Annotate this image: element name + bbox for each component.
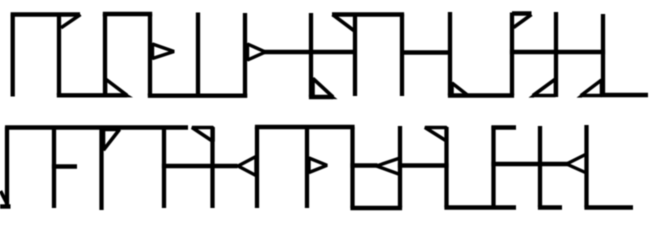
wire H2 bottom horizontal left [57,93,127,97]
wire H11 mid horizontal [162,164,238,168]
flag diagonal at V8 top [333,15,355,32]
arrowhead A5 open left at V22 [377,158,401,175]
wire V22 [398,126,402,208]
left corner triangle at V12 bottom [533,79,556,96]
arrowhead A6 open left at V26 [567,154,587,173]
wire V4 [148,14,152,96]
wire V20 [305,127,309,208]
flag diagonal at V2 top [61,15,81,28]
wire V25 [538,126,542,207]
wire H9 bottom right horizontal [601,93,648,97]
wire V16 [99,127,103,210]
wire H15 mid horizontal [398,163,449,167]
wire V9 [400,14,404,96]
tip of H2 [126,93,133,97]
arrowhead A3 open left at V19 [238,157,256,176]
wire V3 [103,14,107,95]
wire H6 bridge [402,50,450,54]
corner triangle at V10 bottom [452,83,468,96]
wire V14 row2 left vertical [5,127,9,206]
bottom bar at V14 [0,204,11,208]
wire V5 [196,13,200,96]
wire H16 bottom corner horizontal [444,205,516,209]
wire H bottom stub at V7 [309,95,333,99]
wire V18 [210,127,214,208]
wire V23 [444,127,448,208]
wire H13 bottom corner horizontal [350,206,402,210]
corner triangle at V3 bottom [106,79,128,95]
corner triangle at V7 bottom [313,79,333,98]
wire H4 bottom horizontal [148,93,247,97]
left corner triangle at V13 bottom [581,80,602,96]
wire V21 [350,127,354,208]
flag triangle at V23 top [425,128,447,142]
flag top edge at V11 [512,11,532,15]
wire H3 top horizontal [103,12,152,16]
flag diagonal at V11 [514,15,532,28]
wire H19 bottom right horizontal [584,205,633,209]
wire V10 [448,12,452,96]
wire V13 [601,14,605,97]
wire H7 bottom horizontal [448,93,514,97]
wire H5 middle horizontal [264,50,355,54]
wire V12 [554,12,558,97]
tail tip at V13 triangle [577,93,583,97]
wire H17 mid horizontal [491,162,567,166]
top corner stub at V24 [491,125,516,129]
triangle below H10 at V16 [104,130,120,151]
arrowhead A1 open right [153,44,175,59]
wire V6 [243,13,247,98]
wire V11 [510,13,514,96]
arrowhead A2 open right at V6 [248,44,266,60]
wire V2 [57,14,61,95]
wire V8 [353,14,357,96]
wire V7 [309,13,313,97]
wire V15 [52,127,56,208]
stub at V15 [52,164,77,168]
wire H12 row2 top horizontal second [255,125,355,129]
wire V24 [491,126,495,208]
wire H top horizontal right-mid [332,12,404,16]
arrowhead A4 open right at V20 [309,158,327,173]
wire H8 middle horizontal right [510,50,605,54]
tip of V7 stub [332,95,338,99]
wire V26 [584,125,588,208]
wire H1 top horizontal row1 [11,12,80,16]
wire H10 row2 top horizontal [5,125,188,129]
wire V19 [255,127,259,208]
wire H18 bottom stub [538,205,562,209]
wire H14 mid horizontal [350,163,377,167]
tail tip at V12 triangle [529,93,535,97]
wire V17 [162,127,166,208]
diagonal wedge at V14 bottom [1,191,8,205]
flag triangle at end of H10 [192,128,213,142]
wire V1 left vertical row1 [11,14,15,97]
